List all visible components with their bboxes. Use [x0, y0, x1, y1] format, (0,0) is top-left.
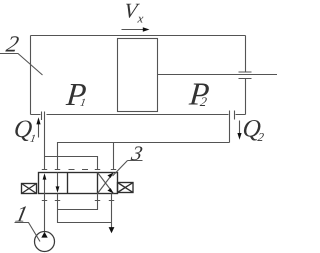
right port pipe	[229, 111, 231, 143]
leader label 3	[113, 161, 143, 177]
solenoid right	[118, 183, 134, 193]
svg-text:2: 2	[4, 31, 21, 56]
tank drain arrow	[109, 194, 115, 234]
piston rod	[158, 74, 278, 76]
label Q2	[241, 115, 261, 142]
label P1	[64, 76, 88, 112]
pipe valve-B to tank line	[58, 194, 112, 223]
label P2	[187, 76, 211, 112]
piston	[118, 39, 158, 112]
rod gland break caps	[239, 72, 252, 79]
svg-text:3: 3	[128, 143, 144, 165]
valve left-position down arrow	[56, 173, 60, 193]
left port pipe to valve	[44, 112, 46, 170]
label Q1	[13, 116, 33, 143]
label 3	[128, 143, 144, 165]
cylinder 2 body	[31, 36, 246, 115]
leader label 2	[0, 54, 43, 76]
pipe valve-D stub up	[113, 143, 115, 170]
svg-text:x: x	[136, 11, 144, 25]
svg-text:1: 1	[29, 133, 37, 145]
pipe valve-C to left pipe	[45, 157, 98, 170]
svg-text:2: 2	[257, 130, 265, 144]
pump flow triangle	[41, 232, 47, 238]
valve crossed-position arrows	[98, 173, 114, 194]
valve left-position up arrow	[43, 173, 47, 193]
valve bottom port caps	[42, 200, 114, 202]
svg-text:1: 1	[79, 97, 87, 109]
valve 3 body	[39, 173, 118, 194]
left port break tick	[41, 112, 43, 121]
label 1	[13, 201, 30, 226]
label 2	[4, 31, 21, 56]
solenoid left	[22, 184, 37, 194]
flow arrow Q1	[36, 117, 40, 137]
pipe valve-B to right port	[58, 143, 230, 170]
velocity arrow Vx	[122, 27, 150, 31]
flow arrow Q2	[237, 121, 241, 140]
pipe pump to valve-A	[44, 194, 46, 232]
pump 1 circle	[35, 232, 55, 252]
right port break tick	[234, 111, 236, 120]
valve top port caps	[42, 169, 116, 171]
label Vx	[123, 0, 141, 22]
pipe valve-C drain loop	[58, 194, 98, 210]
dashed centre-position line	[69, 169, 89, 171]
leader label 1	[15, 223, 41, 242]
